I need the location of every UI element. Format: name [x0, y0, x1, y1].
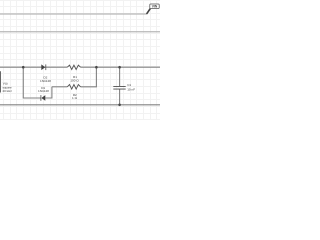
diode D1 cathode bar	[40, 95, 43, 101]
junction node B	[95, 66, 98, 69]
wire net VIN stub (upper light wire)	[0, 13, 147, 15]
node flag VIN tail	[147, 9, 151, 14]
svg-text:20 kHz: 20 kHz	[3, 89, 13, 93]
wire top net right segment	[81, 66, 160, 68]
wire top net left segment	[0, 66, 67, 68]
junction node D	[118, 104, 121, 107]
resistor R1 zigzag	[67, 65, 80, 69]
resistor R2 zigzag	[67, 85, 80, 90]
grid vertical lines	[4, 0, 157, 120]
wire R2 branch right lead up to top net	[81, 67, 97, 87]
svg-text:1 Ω: 1 Ω	[72, 96, 78, 100]
wire second light wire	[0, 31, 160, 33]
grid horizontal lines	[0, 1, 160, 120]
wire C1 top lead	[119, 67, 121, 86]
wire bottom net	[0, 104, 160, 106]
svg-text:VIN: VIN	[152, 5, 158, 9]
wire vertical node A down to D1 branch	[23, 67, 40, 98]
svg-text:C1: C1	[127, 83, 131, 87]
svg-text:10 nF: 10 nF	[127, 88, 135, 92]
capacitor C1 top plate	[113, 85, 125, 88]
diode D2 cathode bar	[44, 64, 47, 70]
source VG1 box right edge (clipped at canvas left)	[0, 71, 1, 92]
wire R2 branch left lead	[52, 86, 67, 88]
svg-text:100 Ω: 100 Ω	[70, 79, 79, 83]
junction node C	[118, 66, 121, 69]
diode D1 triangle	[41, 95, 45, 101]
svg-text:1N4148: 1N4148	[38, 89, 49, 93]
capacitor C1 bottom plate	[113, 88, 125, 91]
junction node A	[22, 66, 25, 69]
diode D2 triangle	[41, 64, 45, 70]
wire D1 right lead up to R2 branch	[45, 87, 52, 98]
node flag VIN box	[150, 4, 159, 9]
svg-text:1N4148: 1N4148	[40, 79, 51, 83]
wire C1 bottom lead	[119, 90, 121, 105]
